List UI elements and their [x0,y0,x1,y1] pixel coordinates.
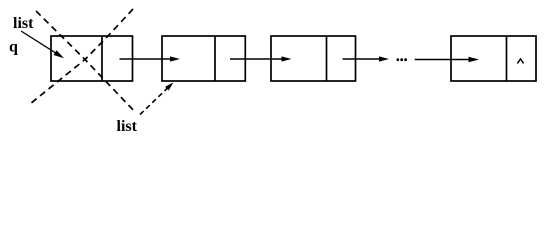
svg-text:q: q [9,39,18,56]
svg-text:list: list [13,15,34,32]
svg-text:list: list [117,118,138,135]
